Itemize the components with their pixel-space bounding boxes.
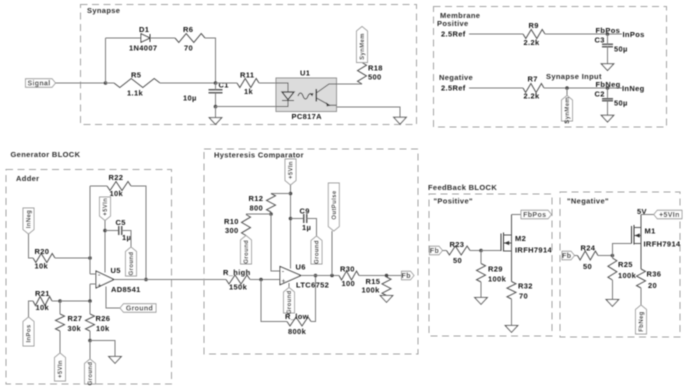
block Adder dashed border — [6, 170, 172, 385]
wire R20 to node — [55, 257, 90, 259]
value 100k (R25) — [618, 271, 637, 280]
value 10k (R20) — [35, 262, 49, 271]
value 50 (R24) — [583, 262, 592, 271]
svg-text:50µ: 50µ — [614, 99, 628, 108]
svg-text:Adder: Adder — [16, 174, 39, 183]
wire C1 bottom lead — [215, 93, 217, 107]
node C9 junction — [289, 217, 293, 221]
wire +5VIn rail — [290, 185, 292, 269]
node R_low output junction — [314, 274, 318, 278]
svg-text:D1: D1 — [139, 25, 149, 34]
label R5 — [131, 71, 141, 80]
wire R21 to node — [52, 300, 60, 302]
svg-text:R9: R9 — [529, 21, 539, 30]
node C1 top junction — [214, 81, 218, 85]
wire R36 to FbNeg — [640, 288, 642, 305]
resistor R29 — [477, 264, 486, 283]
block title Generator BLOCK — [11, 150, 81, 159]
value 10u — [183, 94, 197, 103]
wire InPos to R21 — [29, 301, 34, 317]
value 10k (R22) — [110, 189, 124, 198]
value 500 — [368, 73, 382, 82]
value 1u (C9) — [302, 223, 311, 232]
net label FbPos text — [596, 26, 621, 35]
value 800k — [288, 327, 307, 336]
wire R24 to gate node — [598, 255, 612, 257]
wire inverting vertical — [89, 186, 91, 274]
net label SynMem (synapse) — [357, 27, 368, 63]
svg-text:Fb: Fb — [402, 273, 411, 280]
ground arrow below R29 — [475, 298, 488, 305]
label R30 — [340, 265, 355, 274]
value 1k — [244, 87, 254, 96]
U1 internal collector — [317, 84, 337, 93]
net label SynMem (membrane) — [562, 96, 573, 124]
svg-text:C2: C2 — [595, 90, 605, 99]
svg-text:150k: 150k — [229, 283, 248, 292]
terminal Fb (positive) — [430, 246, 443, 255]
wire to Ground label — [89, 341, 91, 360]
label R36 — [647, 270, 662, 279]
node M1 gate junction — [611, 254, 615, 258]
svg-text:IRFH7914: IRFH7914 — [515, 246, 552, 255]
svg-text:50: 50 — [453, 256, 462, 265]
svg-text:10k: 10k — [96, 324, 110, 333]
value LTC6752 — [296, 281, 329, 290]
net label InNeg (adder) — [23, 208, 34, 234]
wire R29 top lead — [480, 251, 482, 264]
value 10k (R26) — [96, 324, 110, 333]
value 10k (R21) — [36, 303, 50, 312]
wire R27 top lead — [59, 301, 61, 314]
label R21 — [35, 289, 50, 298]
wire to D1 anode — [106, 37, 142, 39]
block title Adder — [16, 174, 39, 183]
label R15 — [366, 277, 381, 286]
U5 minus sign — [98, 272, 101, 279]
resistor R12 — [267, 194, 276, 213]
svg-text:20: 20 — [648, 281, 657, 290]
svg-text:R26: R26 — [96, 314, 111, 323]
svg-text:Ground: Ground — [129, 252, 135, 276]
label R6 — [183, 25, 193, 34]
wire U5 plus input — [90, 283, 96, 285]
value 300 — [225, 226, 239, 235]
power label +5VIn (hysteresis) — [285, 159, 296, 185]
node adder inverting junction — [88, 256, 92, 260]
svg-text:FbPos: FbPos — [523, 212, 546, 219]
svg-text:InNeg: InNeg — [27, 210, 33, 228]
U6 plus sign — [282, 278, 286, 285]
label C3 — [595, 36, 605, 45]
value 2.2k (R9) — [524, 38, 540, 47]
capacitor C5 — [119, 226, 122, 235]
label U6 — [296, 263, 306, 272]
svg-text:Generator BLOCK: Generator BLOCK — [11, 150, 81, 159]
svg-text:R32: R32 — [518, 282, 533, 291]
wire R6 to C1 node — [205, 38, 216, 83]
svg-text:1k: 1k — [244, 87, 254, 96]
resistor R30 — [339, 271, 359, 280]
svg-text:InPos: InPos — [623, 30, 645, 39]
svg-text:R21: R21 — [35, 289, 50, 298]
svg-text:50µ: 50µ — [614, 45, 628, 54]
label R26 — [96, 314, 111, 323]
label R22 — [109, 173, 124, 182]
svg-text:70: 70 — [184, 44, 193, 53]
block Hysteresis dashed border — [204, 149, 418, 354]
block title Hysteresis Comparator — [214, 151, 304, 160]
wire gate lead M2 — [481, 250, 501, 252]
block Synapse dashed border — [81, 5, 417, 125]
resistor R15 — [382, 277, 391, 296]
node divider junction — [269, 212, 273, 216]
terminal +5VIn (feedback) — [654, 210, 682, 219]
svg-text:10k: 10k — [36, 303, 50, 312]
svg-text:M1: M1 — [645, 227, 656, 236]
resistor R21 — [33, 297, 52, 306]
resistor R22 — [107, 182, 131, 191]
net label InNeg — [622, 84, 645, 93]
svg-text:R30: R30 — [340, 265, 355, 274]
label R32 — [518, 282, 533, 291]
label R29 — [488, 265, 503, 274]
svg-text:Signal: Signal — [27, 80, 50, 87]
label M1 — [645, 227, 656, 236]
net label FbNeg (vertical) — [636, 305, 647, 334]
resistor R23 — [447, 246, 471, 255]
value 2.2k (R7) — [524, 92, 540, 101]
svg-text:1.1k: 1.1k — [127, 89, 143, 98]
svg-text:1µ: 1µ — [302, 223, 311, 232]
value 50u (C2) — [614, 99, 628, 108]
svg-text:SynMem: SynMem — [565, 97, 571, 124]
wire Fb to R24 — [575, 255, 578, 257]
block Membrane dashed border — [434, 7, 667, 128]
node R27 junction — [58, 299, 62, 303]
svg-text:R11: R11 — [240, 71, 254, 80]
value 100k (R15) — [362, 286, 381, 295]
net label InPos — [623, 30, 645, 39]
wire R26 top lead — [89, 301, 91, 314]
wire R_high to plus node — [250, 279, 280, 281]
label Negative — [439, 73, 473, 82]
terminal Fb (negative) — [562, 251, 575, 260]
value 1N4007 — [129, 44, 157, 53]
svg-text:1N4007: 1N4007 — [129, 44, 157, 53]
label U1 — [300, 69, 310, 78]
svg-text:Synapse Input: Synapse Input — [546, 72, 602, 81]
svg-text:800k: 800k — [288, 327, 307, 336]
wire R7 to InNeg — [544, 87, 622, 89]
ground arrow below C2 — [601, 115, 614, 122]
label R9 — [529, 21, 539, 30]
svg-text:Synapse: Synapse — [87, 6, 120, 15]
svg-text:100k: 100k — [488, 275, 507, 284]
value 30k — [68, 324, 82, 333]
wire C3 bottom lead — [607, 47, 609, 64]
block title Positive — [434, 197, 473, 206]
label R_high — [223, 268, 251, 277]
value 1u (C5) — [122, 233, 131, 242]
svg-text:Ground: Ground — [244, 240, 250, 264]
wire OutPulse vertical — [331, 231, 333, 276]
resistor R25 — [608, 258, 617, 280]
U1 internal emitter — [317, 98, 337, 106]
U1 internal LED anode lead — [276, 83, 288, 92]
label R20 — [35, 247, 50, 256]
wire R9 to InPos — [545, 33, 622, 35]
node R15 junction — [385, 274, 389, 278]
svg-text:Positive: Positive — [437, 19, 469, 28]
value 100 (R30) — [342, 279, 356, 288]
svg-text:LTC6752: LTC6752 — [296, 281, 329, 290]
ground arrow at U1 pin3 — [394, 117, 407, 124]
wire U1 pin4 to R18 — [337, 83, 363, 85]
wire C5 left lead — [105, 230, 119, 232]
net label OutPulse — [328, 183, 339, 231]
svg-text:Ground: Ground — [287, 290, 293, 314]
svg-text:+5VIn: +5VIn — [289, 161, 295, 179]
wire to ground arrow — [90, 341, 115, 357]
node FbPos junction — [606, 32, 610, 36]
label C1 — [219, 81, 229, 90]
wire U1 pin3 out — [337, 107, 401, 117]
svg-text:10k: 10k — [110, 189, 124, 198]
label R12 — [249, 194, 264, 203]
svg-text:FbNeg: FbNeg — [596, 80, 621, 89]
node feedback-output junction — [144, 278, 148, 282]
wire C1 top lead — [215, 83, 217, 90]
node C5 junction — [103, 229, 107, 233]
svg-text:PC817A: PC817A — [292, 112, 323, 121]
svg-text:2.5Ref: 2.5Ref — [441, 30, 466, 39]
label R7 — [528, 75, 538, 84]
wire M2 drain to FbPos — [512, 214, 522, 216]
node junction at Signal branch — [104, 81, 108, 85]
svg-text:2.5Ref: 2.5Ref — [441, 84, 466, 93]
label R27 — [68, 314, 83, 323]
svg-text:R7: R7 — [528, 75, 538, 84]
wire to R22 — [90, 185, 107, 187]
svg-text:+5VIn: +5VIn — [659, 212, 680, 219]
svg-text:U1: U1 — [300, 69, 310, 78]
value 50 (R23) — [453, 256, 462, 265]
U1 internal LED cathode lead — [276, 100, 288, 106]
wire R29 to ground — [480, 282, 482, 298]
value 800 (R12) — [250, 204, 264, 213]
resistor R7 — [523, 84, 544, 93]
value 20 (R36) — [648, 281, 657, 290]
svg-text:70: 70 — [519, 292, 528, 301]
ground arrow below C1 — [209, 118, 222, 125]
transistor M1 IRFH7914 — [632, 215, 642, 270]
block title FeedBack BLOCK — [428, 183, 497, 192]
value 50u (C3) — [614, 45, 628, 54]
wire R23 to gate node — [470, 250, 481, 252]
wire to R12 — [271, 193, 291, 195]
label R_low — [285, 312, 309, 321]
svg-text:+5VIn: +5VIn — [58, 360, 64, 378]
label R18 — [368, 64, 383, 73]
net label Ground (R26) — [85, 359, 96, 385]
resistor R5 — [114, 79, 160, 88]
net 2.5Ref (positive) — [441, 30, 466, 39]
value PC817A — [292, 112, 323, 121]
net label Ground (U6) — [284, 288, 295, 315]
svg-text:Fb: Fb — [430, 248, 439, 255]
label R11 — [240, 71, 254, 80]
wire to R10 — [246, 213, 271, 215]
wire R25 top lead — [611, 256, 613, 259]
svg-text:C3: C3 — [595, 36, 605, 45]
wire U5 V- down — [106, 287, 120, 309]
svg-text:+: + — [282, 278, 286, 285]
svg-text:100: 100 — [342, 279, 356, 288]
svg-text:OutPulse: OutPulse — [332, 190, 338, 219]
resistor R24 — [578, 251, 599, 260]
svg-text:FbNeg: FbNeg — [639, 311, 645, 331]
label R24 — [581, 244, 596, 253]
svg-text:U6: U6 — [296, 263, 306, 272]
capacitor C9 — [304, 214, 307, 223]
wire R22 to output — [131, 186, 146, 280]
block title Membrane — [440, 11, 480, 20]
net label Ground (R10) — [241, 236, 252, 265]
resistor R10 — [242, 215, 251, 236]
op-amp U6 — [280, 267, 301, 285]
svg-text:+: + — [98, 283, 102, 290]
block Positive dashed border — [429, 194, 552, 336]
wire R25 to ground — [611, 280, 613, 300]
resistor R6 — [175, 34, 205, 43]
label C9 — [300, 207, 310, 216]
resistor R27 — [56, 314, 65, 331]
svg-text:Ground: Ground — [315, 240, 321, 264]
ground arrow (adder) — [109, 357, 122, 364]
svg-text:2.2k: 2.2k — [524, 38, 540, 47]
wire C5 right lead — [122, 231, 131, 248]
wire M1 drain to +5VIn — [641, 214, 654, 216]
net label Ground (U5) — [120, 304, 156, 313]
svg-text:R23: R23 — [450, 240, 465, 249]
op-amp U5 — [96, 271, 114, 288]
wire divider to U6 minus — [271, 214, 280, 271]
svg-text:10k: 10k — [35, 262, 49, 271]
label R23 — [450, 240, 465, 249]
resistor R20 — [33, 254, 55, 263]
svg-text:300: 300 — [225, 226, 239, 235]
ground arrow below C3 — [601, 64, 614, 71]
svg-text:U5: U5 — [111, 266, 121, 275]
wire U5 minus input — [90, 273, 96, 275]
wire R27 to +5VIn — [59, 331, 61, 353]
capacitor C3 — [602, 44, 613, 46]
svg-text:C1: C1 — [219, 81, 229, 90]
wire InNeg to R20 — [29, 234, 34, 258]
svg-text:R6: R6 — [183, 25, 193, 34]
node C1 bottom junction — [214, 105, 218, 109]
value IRFH7914 (M2) — [515, 246, 552, 255]
svg-text:Ground: Ground — [88, 362, 94, 386]
block Negative dashed border — [560, 192, 680, 337]
wire U5 output — [114, 279, 226, 281]
diode D1 — [141, 34, 150, 42]
resistor R36 — [637, 269, 646, 288]
svg-text:R24: R24 — [581, 244, 596, 253]
svg-text:FbPos: FbPos — [596, 26, 621, 35]
wire R11 to U1 pin1 — [259, 82, 276, 84]
net 2.5Ref (negative) — [441, 84, 466, 93]
wire R12 bottom — [270, 212, 272, 214]
label M2 — [515, 234, 526, 243]
svg-text:InPos: InPos — [27, 324, 33, 342]
wire D1 to R6 — [150, 37, 175, 39]
U6 minus sign — [282, 269, 285, 276]
wire plus input vertical — [89, 284, 91, 301]
svg-text:R25: R25 — [618, 260, 633, 269]
U1 internal phototransistor base — [315, 89, 317, 101]
resistor R26 — [86, 314, 95, 331]
net label InPos (adder) — [23, 317, 34, 346]
resistor R11 — [237, 79, 259, 88]
wire R30 to Fb — [359, 275, 402, 277]
svg-text:Fb: Fb — [562, 253, 571, 260]
svg-text:-: - — [98, 272, 101, 279]
ground arrow below R15 — [380, 296, 393, 303]
U1 internal light arrow — [298, 93, 314, 99]
label R10 — [224, 217, 239, 226]
terminal Fb (hysteresis) — [402, 271, 415, 280]
value 100k (R29) — [488, 275, 507, 284]
wire C3 top lead — [607, 34, 609, 44]
wire node to R5 — [106, 82, 115, 84]
wire R32 to ground — [511, 299, 513, 326]
value AD8541 — [111, 285, 141, 294]
svg-text:1µ: 1µ — [122, 233, 131, 242]
wire Signal to node — [56, 82, 106, 84]
net label Ground (C5) — [126, 247, 137, 276]
svg-text:R10: R10 — [224, 217, 239, 226]
svg-text:"Positive": "Positive" — [434, 197, 473, 206]
svg-text:R5: R5 — [131, 71, 141, 80]
ground arrow below R25 — [606, 300, 619, 307]
svg-text:C5: C5 — [116, 218, 126, 227]
transistor M2 IRFH7914 — [501, 215, 512, 282]
node M2 gate junction — [479, 249, 483, 253]
svg-text:R22: R22 — [109, 173, 124, 182]
node R26 bottom junction — [88, 339, 92, 343]
resistor R18 — [358, 63, 367, 85]
block title Negative — [567, 197, 609, 206]
wire C9 left lead — [291, 218, 304, 220]
wire U6 output — [301, 275, 339, 277]
svg-text:Negative: Negative — [439, 73, 473, 82]
wire U6 V- down — [288, 283, 290, 288]
svg-text:+5VIn: +5VIn — [103, 198, 109, 216]
wire up-branch vertical — [105, 38, 107, 83]
svg-text:AD8541: AD8541 — [111, 285, 141, 294]
terminal Signal — [26, 79, 56, 88]
U5 plus sign — [98, 283, 102, 290]
label U5 — [111, 266, 121, 275]
svg-text:InNeg: InNeg — [622, 84, 645, 93]
value 70 — [184, 44, 193, 53]
block title Synapse — [87, 6, 120, 15]
net label Ground (C9) — [311, 236, 322, 264]
resistor R_low — [287, 317, 311, 326]
wire +5VIn to U5 V+ — [104, 221, 106, 273]
